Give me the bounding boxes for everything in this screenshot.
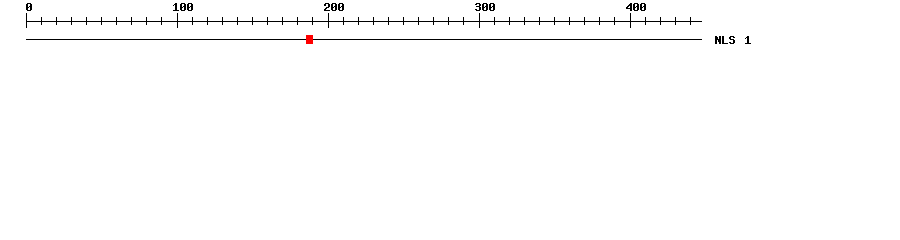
ruler label 400 [626, 3, 646, 11]
major tick 400 [630, 13, 631, 28]
major tick 100 [177, 13, 178, 28]
ruler label 0 [26, 3, 32, 11]
ruler label 200 [324, 3, 344, 11]
ruler label 100 [173, 3, 193, 11]
major tick 300 [479, 13, 480, 28]
ruler axis line [26, 21, 702, 22]
major tick 0 [26, 13, 27, 28]
ruler label 300 [475, 3, 495, 11]
major tick 200 [328, 13, 329, 28]
background [0, 0, 900, 58]
track label count 1 [745, 36, 751, 44]
minor ticks (every 10 aa) [41, 17, 691, 25]
NLS motif red box (aa ~186-190) [306, 35, 313, 44]
track label NLS [715, 36, 735, 44]
sequence feature line [26, 39, 702, 40]
